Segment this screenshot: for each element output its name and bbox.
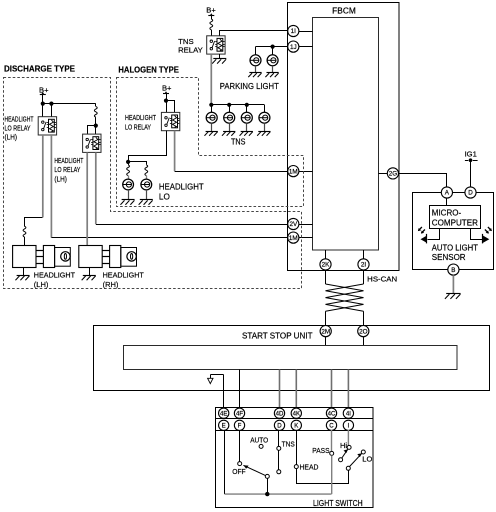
wire TNS lamp 1 to ground	[211, 123, 213, 131]
ground (headlight RH)	[83, 275, 96, 277]
wire halogen bulb1 stem	[128, 162, 130, 165]
node TNS bus junction 3	[245, 103, 249, 107]
ground (auto light sensor)	[446, 293, 460, 295]
ground (parking lamp 1)	[249, 72, 261, 74]
halogen bulb 2	[141, 179, 152, 190]
wire pin 1M to FBCM internal	[299, 171, 313, 173]
wire I to Hi contact	[347, 430, 349, 445]
pin K	[291, 420, 301, 430]
wire pin 1I to FBCM internal	[299, 31, 313, 33]
wire fuse to LH headlight	[24, 237, 26, 246]
wire fuse to relay2	[95, 117, 97, 134]
wire common bus	[225, 493, 332, 495]
LO pivot contact	[346, 466, 350, 470]
svg-text:HEADLIGHT: HEADLIGHT	[5, 116, 35, 123]
svg-text:2V: 2V	[289, 221, 298, 228]
svg-text:2G: 2G	[389, 171, 398, 178]
node discharge RH junction	[94, 124, 98, 128]
start stop unit inner box	[124, 346, 458, 370]
PASS contact	[330, 451, 334, 455]
wire SSU to pin 4E	[223, 375, 225, 409]
ground (TNS lamp 4)	[258, 131, 270, 133]
pin 4F	[234, 408, 244, 418]
Hi switch arm	[342, 449, 348, 458]
wire SSU to pin 4D	[279, 370, 281, 409]
svg-text:F: F	[238, 423, 242, 430]
LO switch arm	[350, 453, 362, 466]
wires ballast to igniter (RH)	[102, 250, 109, 252]
pin D	[274, 420, 284, 430]
svg-text:RELAY: RELAY	[178, 46, 203, 55]
wire K to HEAD contact	[296, 430, 298, 465]
svg-text:2M: 2M	[321, 328, 330, 335]
pin 4E	[219, 408, 229, 418]
wire parking lamp 1 stem	[255, 47, 257, 55]
ground (halogen bulb 2)	[140, 199, 153, 201]
node common junction	[265, 492, 269, 496]
wire twisted to 2O	[363, 311, 365, 326]
wire pivot to common	[267, 478, 269, 494]
headlight bulb housing (LH)	[55, 248, 71, 267]
relay TNS RELAY	[207, 36, 225, 54]
Hi arm pivot contact	[339, 458, 343, 462]
svg-text:HEADLIGHT: HEADLIGHT	[159, 183, 204, 192]
HALOGEN TYPE dashed boundary	[117, 78, 304, 207]
halogen bulb 1	[123, 179, 134, 190]
pin 4I	[343, 408, 353, 418]
svg-text:1I: 1I	[291, 28, 297, 35]
wire HEAD to LO pivot	[297, 469, 349, 484]
ground (headlight LH)	[17, 275, 30, 277]
svg-text:HEADLIGHT: HEADLIGHT	[103, 270, 145, 279]
wire halogen relay switch output	[129, 131, 167, 162]
wire parking lamp 2 to ground	[272, 66, 274, 73]
pin 1M	[288, 166, 299, 177]
wire pin 1M lower to FBCM internal	[299, 237, 313, 239]
fuse (headlight LH)	[23, 226, 26, 237]
svg-text:HEADLIGHT: HEADLIGHT	[54, 158, 84, 165]
wire D to TNS contact	[278, 430, 280, 446]
svg-text:HALOGEN TYPE: HALOGEN TYPE	[118, 65, 179, 75]
pin 2O	[358, 326, 369, 337]
svg-text:4K: 4K	[293, 410, 300, 417]
wire discharge B+ bus	[43, 103, 96, 105]
wire TNS lamp 4 stem	[264, 105, 266, 112]
svg-text:HEADLIGHT: HEADLIGHT	[125, 115, 157, 122]
node TNS bus junction 2	[227, 103, 231, 107]
svg-text:2I: 2I	[361, 262, 367, 269]
svg-text:HS-CAN: HS-CAN	[367, 275, 397, 284]
svg-text:2O: 2O	[359, 328, 368, 335]
microcomputer box	[430, 206, 481, 229]
pin 2M	[320, 326, 331, 337]
wire C to PASS contact	[331, 430, 333, 451]
ground (TNS lamp 2)	[223, 131, 235, 133]
node parking light junction	[271, 45, 275, 49]
wire inner box to 2K	[325, 250, 327, 259]
pin I	[343, 420, 353, 430]
svg-text:4D: 4D	[276, 410, 284, 417]
AUTO contact	[259, 444, 263, 448]
sensor pin B	[448, 264, 459, 275]
TNS bulb 2	[224, 112, 235, 123]
DISCHARGE TYPE dashed boundary	[4, 78, 302, 289]
svg-text:FBCM: FBCM	[332, 7, 356, 16]
wire E to common	[224, 430, 226, 494]
rotary arm pivot	[265, 474, 269, 478]
svg-text:TNS: TNS	[231, 137, 246, 146]
pin 2V	[288, 218, 299, 229]
fuse (discharge RH branch)	[95, 104, 97, 107]
node halogen bulb bus junction	[126, 160, 130, 164]
start stop unit outer box	[94, 326, 490, 391]
headlight (LH) ballast box	[13, 246, 36, 268]
TNS contact	[277, 446, 281, 450]
wire SSU to pin 4I	[347, 370, 349, 409]
svg-text:LIGHT SWITCH: LIGHT SWITCH	[313, 499, 363, 508]
pin 4K	[291, 408, 301, 418]
Hi contact	[347, 445, 351, 449]
twisted pair HS-CAN	[326, 284, 364, 311]
pin 1J	[288, 41, 299, 52]
relay HEADLIGHT LO RELAY (discharge LH)	[38, 117, 56, 135]
photodiode right	[482, 234, 484, 244]
photodiode left	[426, 234, 428, 244]
svg-text:B+: B+	[162, 83, 172, 92]
wire to relay1 coil	[51, 104, 53, 117]
TNS lower contact	[277, 470, 281, 474]
parking light bulb 2	[267, 55, 278, 66]
wire fuse to halogen bulb 1	[128, 176, 130, 180]
svg-text:B+: B+	[39, 86, 49, 95]
wire TNS relay switch output down to TNS bus	[210, 54, 212, 105]
LO contact	[361, 450, 365, 454]
ground (parking lamp 2)	[266, 72, 278, 74]
svg-text:4F: 4F	[236, 410, 243, 417]
wire pin A to microcomputer	[446, 198, 448, 205]
wire TNS lamp 2 to ground	[229, 123, 231, 131]
svg-text:C: C	[329, 423, 334, 430]
wire TNS lamp 4 to ground	[264, 123, 266, 131]
pin 2K	[320, 259, 331, 270]
ground (halogen bulb 1)	[122, 199, 135, 201]
wire SSU to pin 4C	[331, 370, 333, 409]
wires ballast to igniter (LH)	[36, 250, 43, 252]
svg-text:D: D	[468, 190, 473, 197]
wire parking lamp 2 stem	[272, 47, 274, 55]
wire halogen bulb bus	[129, 162, 147, 165]
wire relay1 switch output	[42, 135, 44, 217]
fuse (halogen bulb 1)	[127, 165, 130, 176]
wire headlight RH to ground	[89, 268, 91, 276]
wire relay2 coil output	[95, 152, 97, 224]
wire TNS lamp 3 stem	[246, 105, 248, 112]
wire 2I down	[363, 270, 365, 284]
wire IG1 to sensor pin D	[470, 160, 472, 187]
svg-text:SENSOR: SENSOR	[432, 253, 466, 262]
node discharge B+ junction 1	[41, 102, 45, 106]
svg-text:HEAD: HEAD	[300, 463, 320, 472]
wire pin 1J to FBCM internal	[299, 46, 313, 48]
headlight (LH) igniter box	[43, 246, 54, 268]
sensor pin D	[465, 187, 476, 198]
wire pin 2V to FBCM internal	[299, 224, 313, 226]
TNS bulb 1	[206, 112, 217, 123]
wire branch to relay2 switch	[88, 126, 96, 135]
wire relay2 switch output to RH headlight	[86, 152, 88, 245]
svg-text:TNS: TNS	[282, 440, 295, 449]
wire TNS lamp 1 stem	[211, 105, 213, 112]
svg-text:HEADLIGHT: HEADLIGHT	[34, 270, 76, 279]
headlight (RH) igniter box	[110, 246, 121, 268]
light switch box	[216, 408, 374, 508]
svg-text:2K: 2K	[322, 262, 331, 269]
ground arrow inside SSU	[211, 374, 224, 376]
sensor pin A	[441, 187, 452, 198]
wire halogen coil to pin 1M	[175, 171, 288, 173]
wire TNS bus	[211, 104, 264, 106]
pin 1I	[288, 25, 299, 36]
wire pin 1J to parking light bus	[256, 46, 288, 48]
wire parking lamp 1 to ground	[255, 66, 257, 73]
svg-text:PARKING LIGHT: PARKING LIGHT	[220, 82, 279, 91]
FBCM module outer box	[288, 3, 400, 271]
node halogen B+ junction	[164, 99, 168, 103]
wire relay1 coil output	[50, 135, 52, 238]
svg-text:E: E	[222, 423, 226, 430]
pin C	[326, 420, 336, 430]
wire TNS contact to lower contact	[278, 450, 280, 469]
svg-text:I: I	[348, 423, 350, 430]
svg-text:Hi: Hi	[340, 441, 347, 450]
svg-text:IG1: IG1	[465, 150, 477, 159]
wire 2M to SSU internal	[325, 337, 327, 346]
svg-text:LO RELAY: LO RELAY	[125, 124, 151, 131]
svg-text:AUTO LIGHT: AUTO LIGHT	[432, 243, 478, 252]
wire headlight LH to ground	[23, 268, 25, 276]
relay HEADLIGHT LO RELAY (halogen)	[161, 112, 179, 130]
svg-text:LO: LO	[362, 455, 372, 464]
svg-text:DISCHARGE TYPE: DISCHARGE TYPE	[4, 64, 75, 74]
wire to relay1 switch	[42, 104, 44, 117]
pin 4C	[326, 408, 336, 418]
wire halogen relay coil output	[174, 131, 176, 171]
svg-text:(LH): (LH)	[34, 280, 49, 289]
svg-text:(LH): (LH)	[54, 176, 67, 183]
svg-text:4C: 4C	[328, 410, 336, 417]
headlight bulb housing (RH)	[121, 248, 137, 267]
svg-text:LO RELAY: LO RELAY	[5, 126, 31, 133]
svg-text:1M: 1M	[289, 168, 298, 175]
svg-text:B+: B+	[206, 5, 216, 14]
relay HEADLIGHT LO RELAY (discharge 2)	[83, 134, 101, 152]
TNS bulb 4	[259, 112, 270, 123]
HEAD contact	[294, 465, 298, 469]
wire relay2 coil to pin 2V	[96, 224, 288, 226]
wire FBCM internal to pin 2G	[378, 173, 387, 175]
svg-text:1M: 1M	[289, 235, 298, 242]
svg-text:PASS: PASS	[312, 446, 329, 455]
wire microcomputer to left photodiode	[428, 229, 440, 240]
svg-text:OFF: OFF	[232, 467, 246, 476]
pin 2G	[387, 168, 398, 179]
ground (TNS relay)	[213, 58, 226, 60]
fuse (TNS relay feed)	[210, 19, 213, 30]
wire SSU to pin 4K	[295, 370, 297, 409]
wire pin 2G to sensor pin A	[399, 174, 447, 187]
wire halogen B+ to coil	[167, 101, 175, 113]
wire pin B to ground	[452, 275, 454, 293]
wire TNS relay coil to pin 1I	[220, 31, 288, 36]
pin 4D	[274, 408, 284, 418]
pin 2I	[358, 259, 369, 270]
svg-text:D: D	[277, 423, 282, 430]
TNS bulb 3	[241, 112, 252, 123]
switch arm (rotary)	[243, 465, 265, 475]
svg-text:LO RELAY: LO RELAY	[54, 167, 80, 174]
svg-text:4I: 4I	[346, 410, 351, 417]
wire halogen bulb 2 to ground	[146, 190, 148, 200]
node discharge B+ junction 2	[49, 102, 53, 106]
wire SSU to pin 4F	[239, 370, 241, 409]
wire PASS to common	[331, 455, 333, 494]
svg-text:B: B	[451, 267, 455, 274]
svg-text:COMPUTER: COMPUTER	[432, 219, 478, 228]
headlight (RH) ballast box	[79, 246, 102, 268]
wire TNS lamp 2 stem	[229, 105, 231, 112]
wire jog to LH headlight	[25, 218, 43, 227]
wire inner box to 2I	[363, 250, 365, 259]
svg-text:(RH): (RH)	[103, 280, 119, 289]
headlight bulb (LH)	[61, 252, 70, 261]
svg-text:4E: 4E	[220, 410, 227, 417]
fuse (halogen bulb 2)	[145, 165, 148, 176]
wire fuse to TNS relay	[211, 30, 213, 36]
wire 2O to SSU internal	[363, 337, 365, 346]
svg-text:LO: LO	[159, 192, 170, 201]
svg-text:START STOP UNIT: START STOP UNIT	[242, 332, 313, 341]
FBCM inner box	[313, 18, 379, 251]
wire 2K down	[325, 270, 327, 284]
parking light bulb 1	[250, 55, 261, 66]
wire TNS relay to ground	[219, 54, 221, 59]
svg-text:1J: 1J	[290, 44, 297, 51]
ground (TNS lamp 1)	[206, 131, 218, 133]
svg-text:K: K	[294, 423, 298, 430]
wire TNS lamp 3 to ground	[246, 123, 248, 131]
OFF contact	[238, 462, 242, 466]
wire microcomputer to right photodiode	[471, 229, 483, 240]
pin E	[219, 420, 229, 430]
wire halogen bulb 1 to ground	[128, 190, 130, 200]
node TNS bus junction 1	[209, 103, 213, 107]
auto light sensor box	[413, 193, 494, 270]
light switch connector row lines	[216, 418, 373, 420]
ground (TNS lamp 3)	[241, 131, 253, 133]
svg-text:MICRO-: MICRO-	[432, 208, 462, 217]
wire fuse to halogen bulb 2	[146, 176, 148, 180]
svg-text:AUTO: AUTO	[250, 436, 268, 445]
IG1 power symbol	[465, 160, 468, 162]
wire twisted to 2M	[325, 311, 327, 326]
headlight bulb (RH)	[127, 252, 136, 261]
wire F to OFF contact	[239, 430, 241, 462]
svg-text:(LH): (LH)	[5, 135, 18, 142]
wire relay1 coil to pin 1M	[51, 237, 287, 239]
pin 1M (lower)	[288, 232, 299, 243]
pin F	[234, 420, 244, 430]
